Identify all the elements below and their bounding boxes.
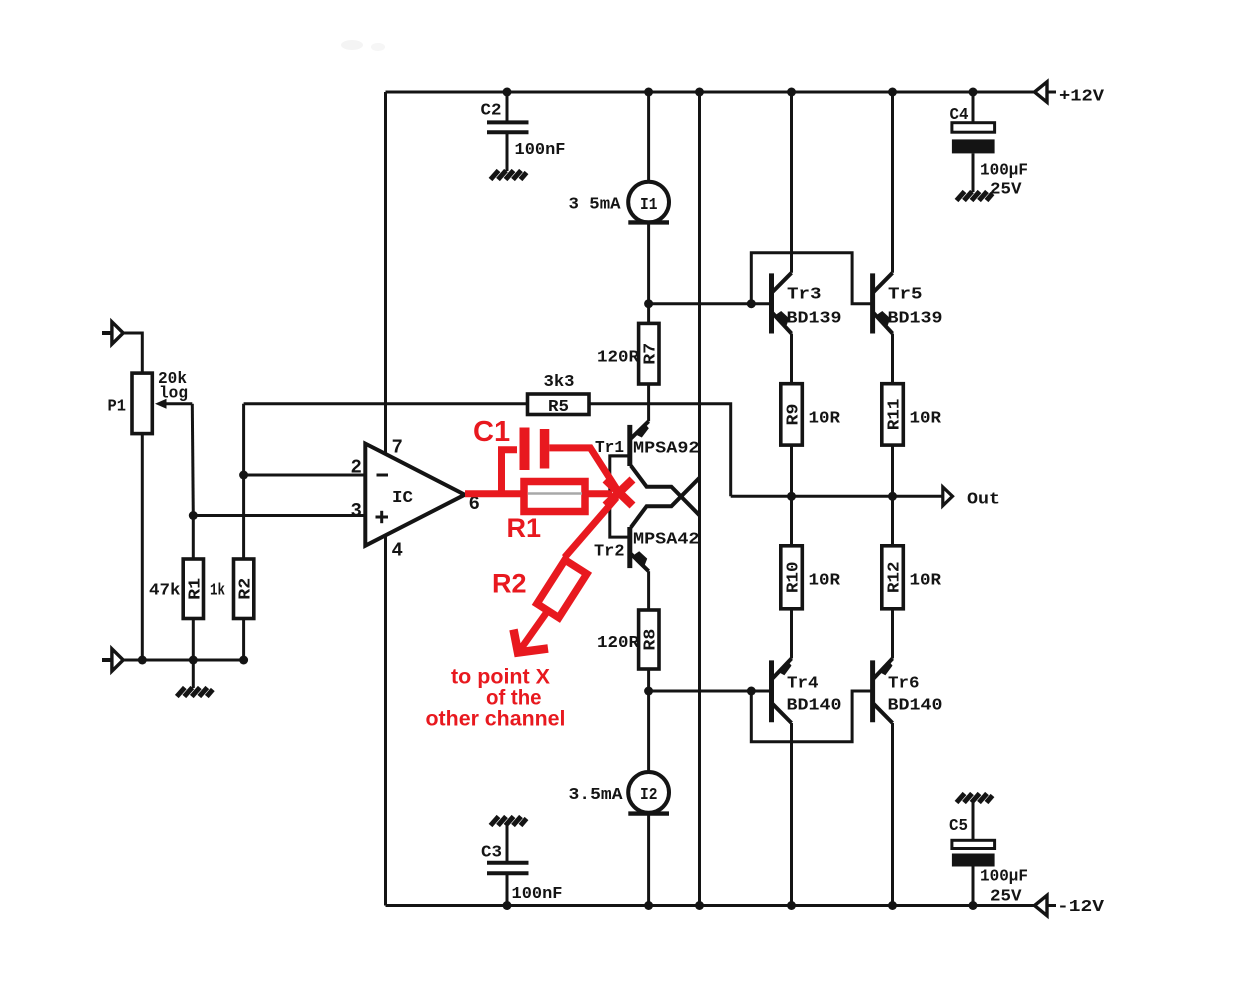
capacitor C5	[952, 801, 995, 906]
svg-text:BD139: BD139	[787, 310, 842, 329]
svg-text:Out: Out	[967, 491, 1000, 510]
transistor Tr4	[772, 659, 792, 724]
transistor Tr3	[772, 273, 792, 334]
svg-text:100µF: 100µF	[980, 868, 1028, 887]
wire op-amp pin 7 to +12V rail	[384, 92, 387, 460]
wire R9 to output node	[790, 445, 793, 496]
wire R1 bottom lead	[192, 619, 195, 661]
junction R1 bottom / ground	[189, 656, 198, 665]
svg-text:R8: R8	[642, 629, 661, 651]
wire node A to Tr3/Tr5 base net	[649, 302, 772, 305]
ground above C5	[957, 794, 993, 803]
wire input to P1 top	[123, 333, 142, 373]
svg-text:R10: R10	[785, 562, 804, 594]
junction bottom rail at C5	[969, 901, 978, 910]
op-amp plus sign	[376, 511, 389, 523]
svg-text:+12V: +12V	[1059, 88, 1105, 107]
junction top rail at Tr3 collector	[787, 88, 796, 97]
svg-text:BD139: BD139	[888, 310, 943, 329]
svg-text:BD140: BD140	[888, 697, 943, 716]
junction Tr3 base node	[747, 299, 756, 308]
junction top rail at long vertical	[695, 88, 704, 97]
svg-text:C4: C4	[950, 106, 969, 125]
svg-text:R1: R1	[186, 578, 205, 600]
red annotation: wire R2 to arrow	[520, 611, 548, 650]
node X mark (red)	[606, 480, 633, 506]
svg-text:2: 2	[351, 457, 362, 479]
svg-text:Tr3: Tr3	[787, 286, 822, 305]
red annotation: C1 to point X wire	[549, 448, 617, 490]
svg-text:MPSA92: MPSA92	[633, 440, 700, 459]
wire R2 bottom lead	[242, 619, 245, 661]
transistor Tr1	[610, 421, 700, 515]
junction pin 2 node	[239, 471, 248, 480]
svg-text:Tr6: Tr6	[888, 675, 920, 694]
svg-text:10R: 10R	[809, 410, 841, 429]
resistor R2 (red annotation)	[537, 560, 587, 618]
junction bottom rail at I2	[644, 901, 653, 910]
wire R10 to Tr4 emitter	[790, 609, 793, 659]
resistor R10	[781, 546, 804, 609]
svg-text:BD140: BD140	[787, 697, 842, 716]
wire Tr2 emitter to R8	[647, 571, 650, 610]
current source I1	[628, 182, 669, 223]
wire P1 wiper to pin3 node	[192, 404, 193, 516]
svg-text:R1: R1	[507, 513, 542, 543]
svg-text:1k: 1k	[210, 582, 225, 601]
capacitor C2	[487, 122, 529, 132]
wire -12V bottom supply rail	[386, 904, 1035, 907]
connector input terminal top	[102, 322, 123, 344]
connector Out terminal	[943, 487, 953, 506]
svg-text:R2: R2	[492, 569, 527, 599]
svg-text:3k3: 3k3	[544, 373, 575, 392]
wire feedback from R5 right to output node	[589, 404, 731, 497]
wire R8 to node B	[647, 669, 650, 691]
ground below C2	[491, 171, 527, 180]
wire output node to R10	[790, 496, 793, 546]
red annotation: C1 branch wire	[502, 450, 518, 494]
P1 wiper arrow	[155, 399, 192, 409]
svg-text:120R: 120R	[597, 349, 640, 368]
svg-text:10R: 10R	[910, 572, 942, 591]
svg-text:3: 3	[351, 500, 362, 522]
junction Tr4 base node	[747, 687, 756, 696]
wire base bracket joining Tr1/Tr2 bases	[610, 456, 630, 537]
ground below input network	[177, 688, 213, 697]
svg-text:C5: C5	[949, 817, 968, 836]
capacitor C1 (red)	[520, 428, 550, 471]
red annotation: wire X to R2	[565, 498, 617, 558]
junction R2 bottom	[239, 656, 248, 665]
potentiometer P1	[132, 373, 152, 434]
junction bottom rail at Tr4 collector	[787, 901, 796, 910]
resistor R11	[882, 384, 905, 445]
wire output line to Out	[731, 495, 943, 498]
svg-text:3 5mA: 3 5mA	[569, 196, 622, 215]
wire node B to Tr4/Tr6 base net	[649, 690, 772, 693]
junction top rail at I1	[644, 88, 653, 97]
svg-text:-12V: -12V	[1057, 898, 1105, 917]
wire Tr5 emitter to R11	[891, 334, 894, 384]
svg-text:4: 4	[392, 540, 403, 562]
wire R11 to output node	[891, 445, 894, 496]
svg-text:Tr4: Tr4	[787, 675, 819, 694]
svg-text:Tr5: Tr5	[888, 286, 923, 305]
red annotation: arrowhead to other channel	[514, 630, 549, 653]
ground above C3	[491, 817, 527, 826]
svg-text:C2: C2	[481, 102, 502, 121]
wire bottom common line	[123, 659, 243, 662]
svg-text:25V: 25V	[990, 888, 1022, 907]
current source I2	[628, 772, 669, 814]
svg-text:10R: 10R	[809, 572, 841, 591]
junction output node at R11/R12	[888, 492, 897, 501]
svg-text:100µF: 100µF	[980, 162, 1028, 181]
svg-text:MPSA42: MPSA42	[633, 531, 700, 550]
svg-text:3.5mA: 3.5mA	[569, 786, 624, 805]
wire node B to I2	[647, 691, 650, 772]
op-amp minus sign	[377, 474, 389, 477]
wire I1 to node A	[647, 222, 650, 303]
op-amp IC	[365, 444, 465, 546]
transistor Tr6	[873, 659, 893, 724]
junction node A (R7 top / driver bases)	[644, 299, 653, 308]
svg-text:of the: of the	[486, 687, 542, 710]
ground below C4	[957, 192, 993, 201]
junction P1 bottom	[138, 656, 147, 665]
junction top rail at Tr5 collector	[888, 88, 897, 97]
wire base loop under to Tr6 base	[751, 691, 871, 742]
wire C2 top lead	[506, 92, 509, 121]
svg-text:other channel: other channel	[426, 708, 566, 731]
wire P1 bottom to ground line	[141, 434, 144, 660]
connector -12V terminal	[1035, 895, 1057, 915]
wire feedback from inverting input corner to R5	[244, 404, 528, 475]
resistor R1	[183, 559, 205, 619]
wire op-amp pin 4 to -12V rail	[384, 530, 387, 906]
junction output node at R9/R10	[787, 492, 796, 501]
wire I2 to bottom rail	[647, 814, 650, 906]
junction top rail at C4	[969, 88, 978, 97]
wire pin3 node down to R1	[192, 516, 195, 560]
resistor R1 (red annotation)	[524, 482, 585, 512]
junction bottom rail at long vertical	[695, 901, 704, 910]
svg-text:IC: IC	[392, 489, 413, 508]
wire non-inverting input (pin 3) to op-amp	[193, 514, 368, 517]
wire Tr6 collector to -12V rail	[891, 723, 894, 906]
wire R7 to Tr1 emitter	[647, 384, 650, 421]
wire Tr5 collector to +12V rail	[891, 92, 894, 273]
capacitor C3	[487, 824, 529, 906]
junction node B (R8 bottom / output stage bases)	[644, 687, 653, 696]
wire Tr4 collector to -12V rail	[790, 723, 793, 906]
resistor R7	[639, 323, 661, 384]
resistor R5	[528, 394, 590, 417]
resistor R8	[639, 610, 661, 669]
wire pin2 node down to R2	[242, 475, 245, 559]
wire base loop over to Tr5 base	[751, 253, 871, 304]
resistor R9	[781, 384, 804, 445]
svg-text:C1: C1	[473, 416, 510, 448]
resistor R2	[234, 559, 256, 619]
svg-text:7: 7	[392, 437, 403, 459]
svg-text:R12: R12	[886, 562, 905, 594]
capacitor C4	[952, 92, 995, 192]
transistor Tr2	[630, 478, 700, 571]
svg-text:10R: 10R	[910, 410, 942, 429]
wire C2 bottom lead	[506, 132, 509, 171]
svg-text:R7: R7	[642, 343, 661, 365]
wire output node to R12	[891, 496, 894, 546]
svg-text:C3: C3	[481, 844, 502, 863]
connector input terminal bottom	[102, 649, 123, 671]
junction bottom rail at Tr6 collector	[888, 901, 897, 910]
transistor Tr5	[873, 273, 893, 334]
wire Tr3 emitter to R9	[790, 334, 793, 384]
svg-text:R5: R5	[548, 398, 569, 417]
svg-text:P1: P1	[108, 398, 127, 417]
svg-text:Tr2: Tr2	[594, 543, 625, 562]
wire node A to R7	[647, 304, 650, 324]
junction pin 3 node	[189, 511, 198, 520]
junction top rail at C2	[503, 88, 512, 97]
svg-text:I2: I2	[640, 786, 658, 805]
wire long vertical rail-to-rail (crossed-pair collectors)	[698, 92, 701, 906]
junction bottom rail at C3	[503, 901, 512, 910]
svg-text:R9: R9	[785, 403, 804, 425]
resistor R12	[882, 546, 905, 609]
svg-text:I1: I1	[640, 196, 658, 215]
svg-text:100nF: 100nF	[512, 885, 563, 904]
wire Tr3 collector to +12V rail	[790, 92, 793, 273]
wire inverting input (pin 2) to op-amp	[244, 474, 368, 477]
red annotation: link op-amp output to R1	[465, 490, 612, 497]
svg-text:R2: R2	[237, 578, 256, 600]
connector +12V terminal	[1035, 82, 1057, 102]
wire ground lead	[192, 660, 195, 688]
svg-text:R11: R11	[886, 399, 905, 431]
svg-text:to point X: to point X	[451, 666, 550, 689]
svg-text:25V: 25V	[990, 181, 1022, 200]
wire I1 top lead	[647, 92, 650, 182]
wire +12V top supply rail	[386, 91, 1035, 94]
svg-text:120R: 120R	[597, 634, 640, 653]
svg-text:100nF: 100nF	[515, 141, 566, 160]
wire R12 to Tr6 emitter	[891, 609, 894, 659]
svg-text:47k: 47k	[149, 582, 181, 601]
